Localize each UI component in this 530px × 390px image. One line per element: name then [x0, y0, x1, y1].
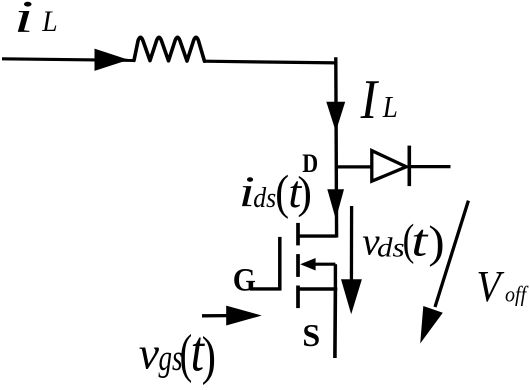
- MOSFET channel top dash: [296, 223, 300, 246]
- svg-text:V: V: [476, 263, 504, 311]
- MOSFET gate lead: [250, 287, 281, 290]
- svg-text:): ): [297, 167, 312, 218]
- label v_ds(t): [362, 215, 444, 268]
- arrow line: V_off: [435, 201, 468, 307]
- svg-text:ds: ds: [377, 233, 405, 263]
- arrow head: V_off: [420, 306, 443, 344]
- MOSFET channel middle dash: [296, 254, 300, 277]
- svg-text:L: L: [41, 5, 57, 38]
- svg-text:): ): [428, 217, 444, 267]
- label i_ds(t): [239, 164, 312, 219]
- diode D1 triangle: [372, 151, 407, 182]
- MOSFET gate bar: [278, 237, 282, 291]
- svg-text:gs: gs: [159, 338, 183, 379]
- svg-text:G: G: [233, 261, 256, 298]
- svg-text:S: S: [302, 317, 320, 353]
- wire: source down lead: [333, 288, 337, 358]
- MOSFET channel bottom dash: [296, 286, 300, 309]
- label I_L: [360, 69, 398, 131]
- MOSFET body lead: [313, 263, 335, 266]
- svg-text:t: t: [411, 216, 429, 266]
- arrow: i_L current direction: [95, 49, 129, 71]
- MOSFET body arrow: [300, 258, 315, 271]
- diode D1 cathode bar: [407, 146, 411, 187]
- arrow head: v_gs: [226, 306, 262, 326]
- svg-text:ds: ds: [253, 182, 276, 213]
- arrow: I_L: [326, 102, 345, 132]
- label V_off: [476, 263, 529, 311]
- MOSFET body-source connector: [334, 264, 337, 289]
- MOSFET drain lead: [298, 234, 337, 237]
- wire: diode anode lead: [336, 165, 372, 168]
- wire: diode cathode lead: [409, 165, 450, 168]
- svg-text:off: off: [505, 281, 529, 306]
- arrow head: v_ds: [341, 279, 362, 314]
- wire: main vertical drain branch: [334, 57, 338, 237]
- inductor L: [134, 37, 205, 61]
- svg-text:(: (: [275, 164, 289, 219]
- label v_gs(t): [139, 319, 216, 385]
- svg-text:I: I: [360, 69, 380, 131]
- arrow: v_gs: [202, 314, 228, 317]
- svg-text:): ): [202, 325, 216, 386]
- arrow: i_ds: [327, 189, 344, 219]
- arrow line: v_ds: [350, 206, 354, 288]
- svg-text:i: i: [14, 0, 34, 42]
- label i_L: [14, 0, 58, 42]
- wire: input lead left: [2, 59, 135, 61]
- svg-text:v: v: [139, 328, 160, 379]
- MOSFET Q1: [250, 223, 337, 308]
- wire: top horizontal to corner: [204, 61, 337, 63]
- MOSFET source lead: [298, 287, 337, 290]
- svg-text:L: L: [382, 91, 398, 125]
